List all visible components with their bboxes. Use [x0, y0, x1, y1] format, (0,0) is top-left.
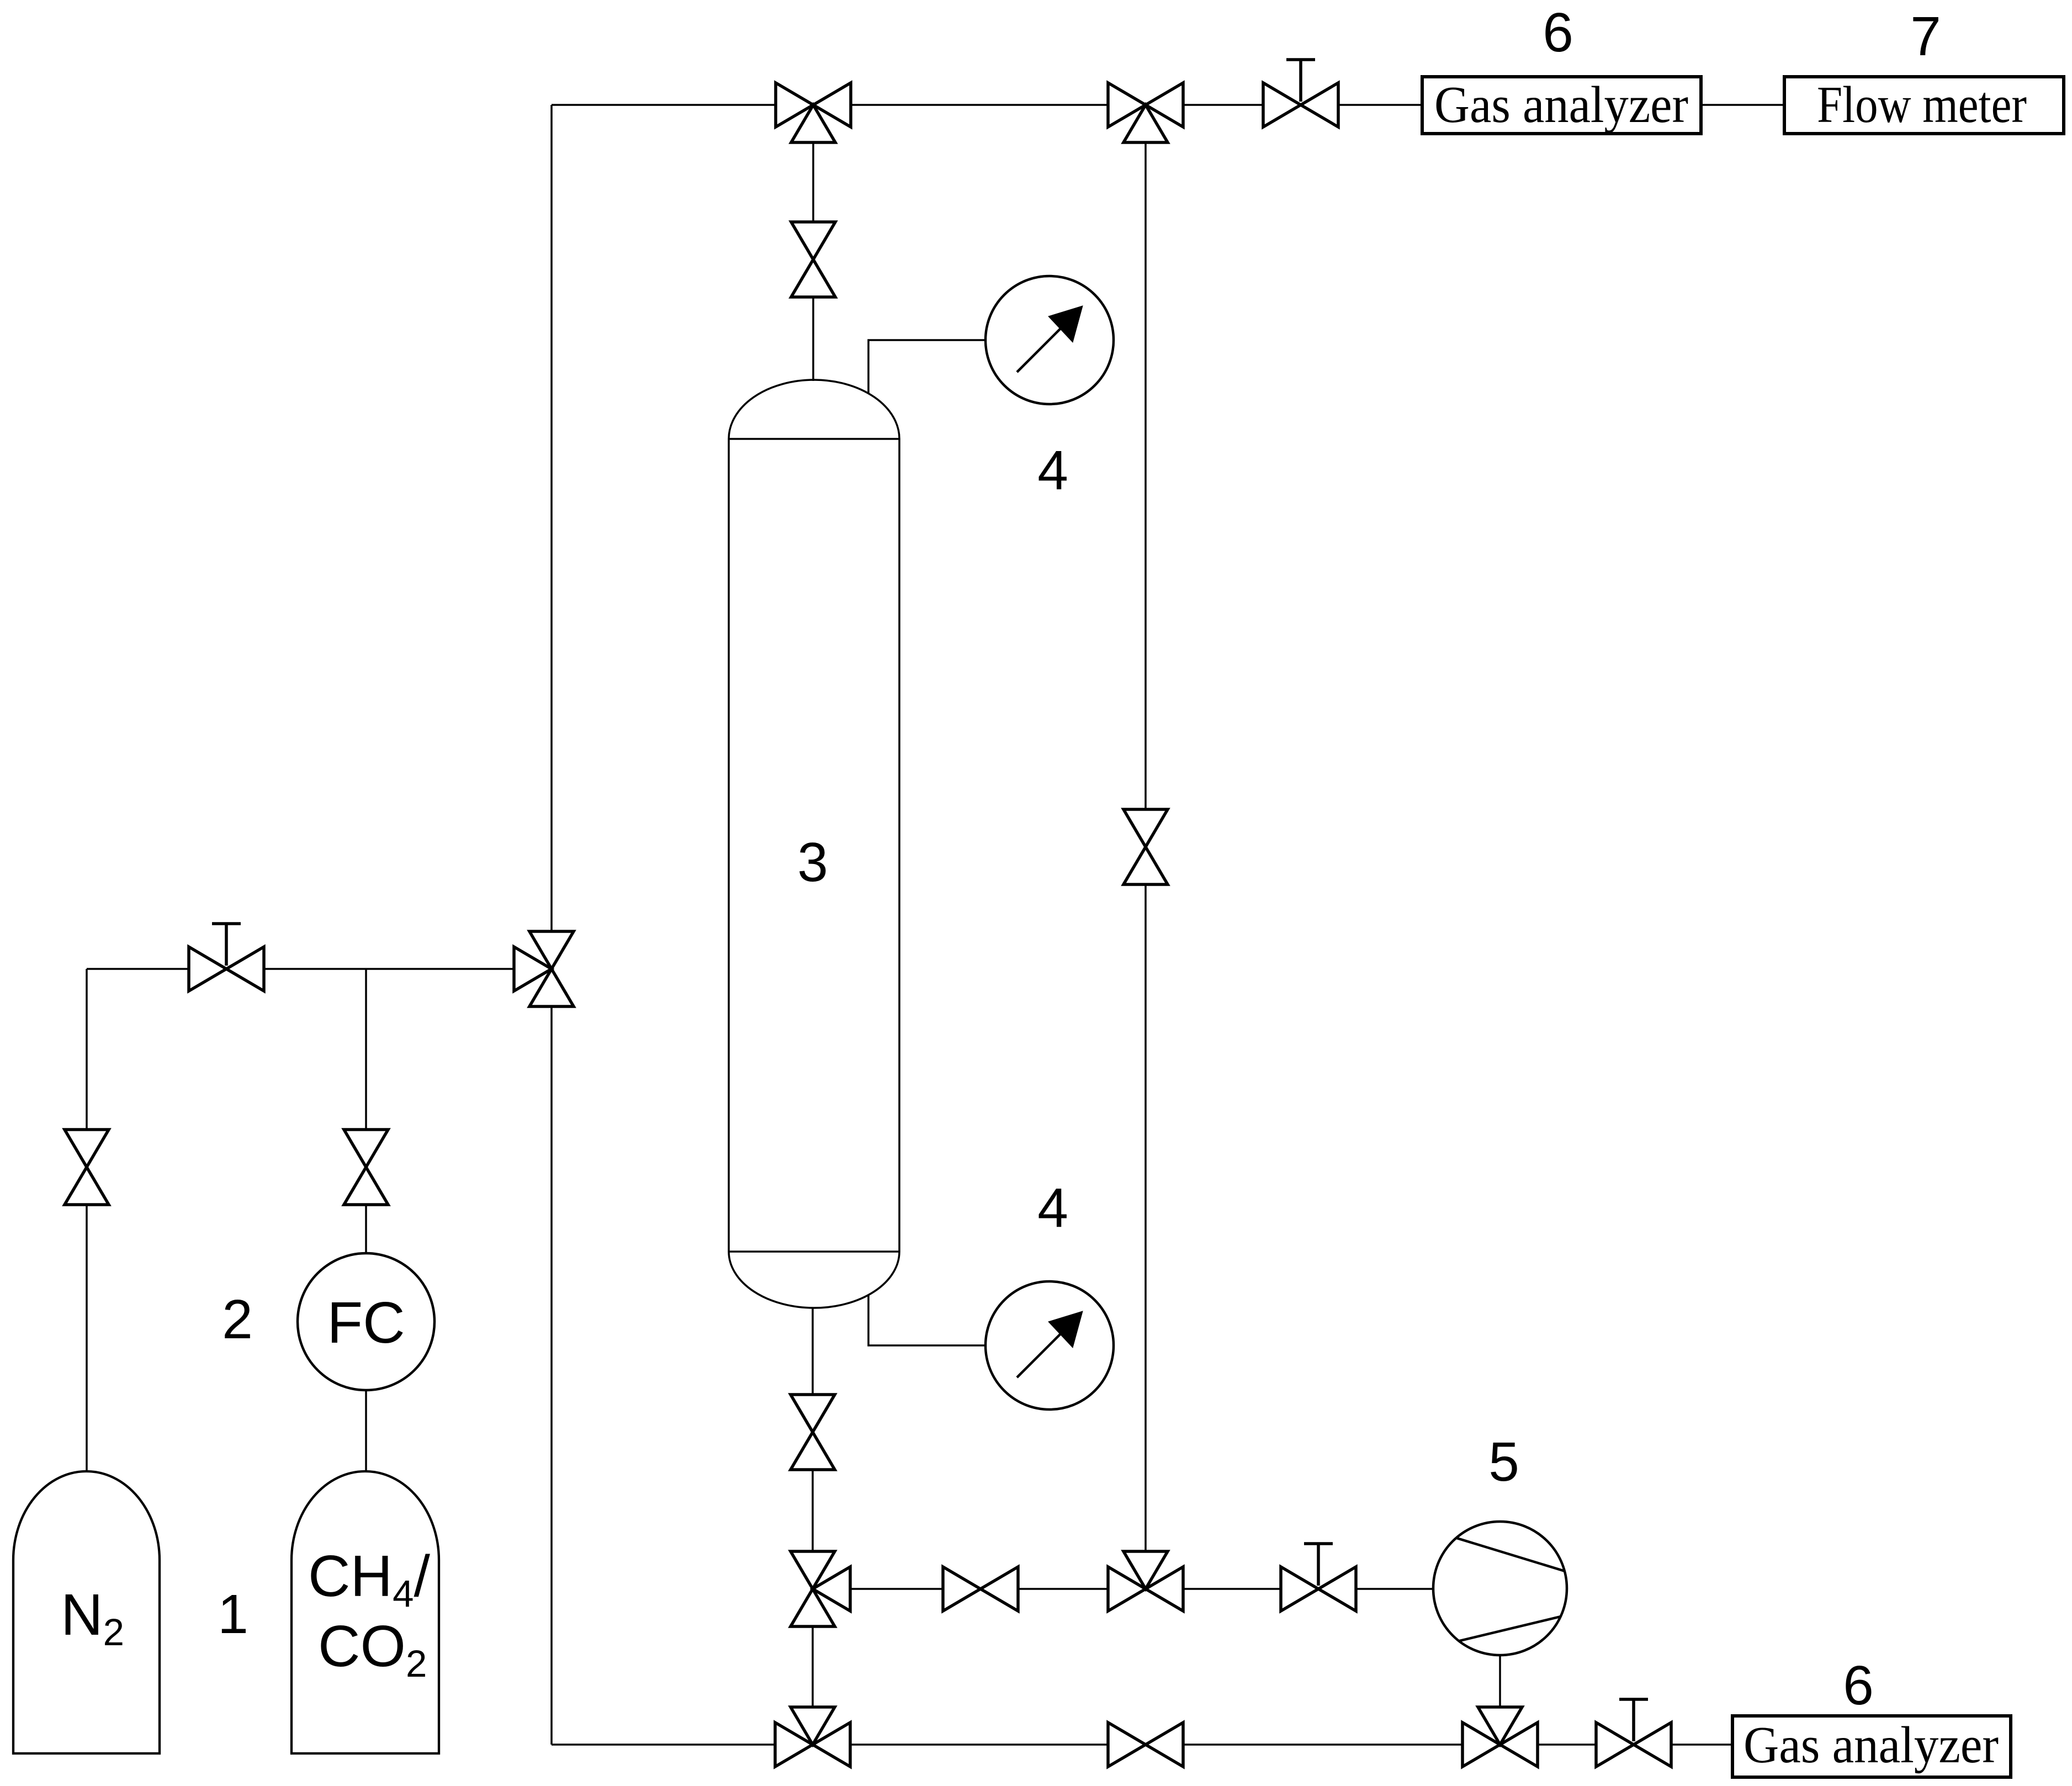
- svg-text:Gas analyzer: Gas analyzer: [1434, 76, 1688, 134]
- valve V16 column bottom isolation: [791, 1395, 835, 1470]
- wire CH4 riser between valve and FC: [365, 1205, 367, 1254]
- valve V17 three-way bottom header: [775, 1707, 850, 1767]
- valve V3 hand valve top header: [1263, 83, 1338, 127]
- valve V6 three-way pump line bypass junction: [1108, 1551, 1183, 1611]
- vacuum pump 5: [1433, 1522, 1567, 1655]
- svg-text:6: 6: [1843, 1655, 1874, 1716]
- valve V7 three-way column outlet: [791, 1551, 850, 1626]
- wire gas analyzer to flow meter: [1701, 104, 1784, 106]
- wire N2 riser upper: [86, 969, 88, 1130]
- pressure gauge 4 bottom: [985, 1281, 1114, 1409]
- valve V2 three-way top header right: [1108, 83, 1183, 142]
- adsorption column 3: [729, 380, 899, 1308]
- wire pump line V8 to V6: [1018, 1588, 1108, 1590]
- svg-text:1: 1: [218, 1583, 248, 1645]
- valve V9 hand valve pump suction: [1281, 1567, 1356, 1611]
- valve V4 column top isolation: [791, 222, 835, 297]
- valve V15 CH4 cylinder valve: [344, 1130, 388, 1205]
- wire CH4 riser below FC: [365, 1390, 367, 1472]
- svg-text:2: 2: [222, 1289, 253, 1350]
- valve V18 bottom header valve: [1108, 1723, 1183, 1767]
- wire pump line V7 to V8: [850, 1588, 944, 1590]
- CH4/CO2 gas cylinder: [292, 1471, 439, 1753]
- wire left bypass vertical lower: [550, 1006, 553, 1745]
- wire N2 riser lower: [86, 1205, 88, 1472]
- svg-text:FC: FC: [327, 1290, 405, 1355]
- wire column riser below valve V4: [812, 296, 814, 381]
- valve V5 right bypass: [1124, 809, 1168, 884]
- wire supply header right of valve V12: [264, 968, 515, 970]
- svg-text:Gas analyzer: Gas analyzer: [1744, 1716, 1999, 1774]
- valve V8 pump line valve: [943, 1567, 1018, 1611]
- svg-text:3: 3: [797, 831, 828, 893]
- wire top header line left segment: [552, 104, 776, 106]
- N2 gas cylinder: [13, 1471, 160, 1753]
- wire pump line V9 to pump: [1356, 1588, 1433, 1590]
- wire left bypass vertical upper: [550, 105, 553, 931]
- wire CH4 riser upper: [365, 969, 367, 1130]
- wire pump line V6 to V9: [1183, 1588, 1281, 1590]
- wire supply header left of valve V12: [87, 968, 189, 970]
- wire pump outlet drop: [1499, 1655, 1501, 1708]
- valve V13 three-way supply junction: [514, 931, 574, 1006]
- svg-text:6: 6: [1543, 2, 1573, 63]
- svg-text:4: 4: [1037, 1177, 1068, 1239]
- valve V12 hand valve supply header: [189, 947, 264, 991]
- wire right bypass vertical lower: [1144, 884, 1147, 1552]
- wire top gauge connector: [868, 340, 985, 393]
- gas analyzer box 6 top: [1422, 77, 1701, 134]
- valve V14 N2 cylinder valve: [65, 1130, 109, 1205]
- wire bottom gauge connector: [868, 1295, 985, 1345]
- wire bottom header left segment: [552, 1743, 775, 1746]
- svg-text:5: 5: [1488, 1431, 1519, 1493]
- gas analyzer box 6 bottom: [1732, 1716, 2011, 1777]
- svg-text:4: 4: [1037, 439, 1068, 501]
- wire bottom header V11 to gas analyzer: [1671, 1743, 1732, 1746]
- svg-text:Flow meter: Flow meter: [1817, 76, 2027, 134]
- wire bottom header V18 to V10: [1183, 1743, 1462, 1746]
- valve V11 hand valve bottom header: [1596, 1723, 1671, 1767]
- wire valve V7 to valve V17: [812, 1626, 814, 1708]
- flow controller FC 2: [298, 1253, 434, 1390]
- wire top header between valve V1 and valve V2: [851, 104, 1108, 106]
- wire top header valve V3 to gas analyzer box: [1338, 104, 1422, 106]
- wire bottom header V17 to V18: [850, 1743, 1108, 1746]
- valve V1 three-way top header left: [776, 83, 851, 142]
- pressure gauge 4 top: [985, 276, 1114, 404]
- wire right bypass vertical upper: [1144, 141, 1147, 809]
- flow meter box 7: [1784, 77, 2064, 134]
- wire column riser above valve V4: [812, 141, 814, 222]
- wire column bottom to valve V16: [812, 1308, 814, 1395]
- wire valve V16 to valve V7: [812, 1469, 814, 1551]
- valve V10 three-way pump discharge junction: [1462, 1707, 1538, 1767]
- svg-text:7: 7: [1910, 6, 1941, 67]
- wire top header between valve V2 and valve V3: [1183, 104, 1263, 106]
- wire bottom header V10 to V11: [1538, 1743, 1596, 1746]
